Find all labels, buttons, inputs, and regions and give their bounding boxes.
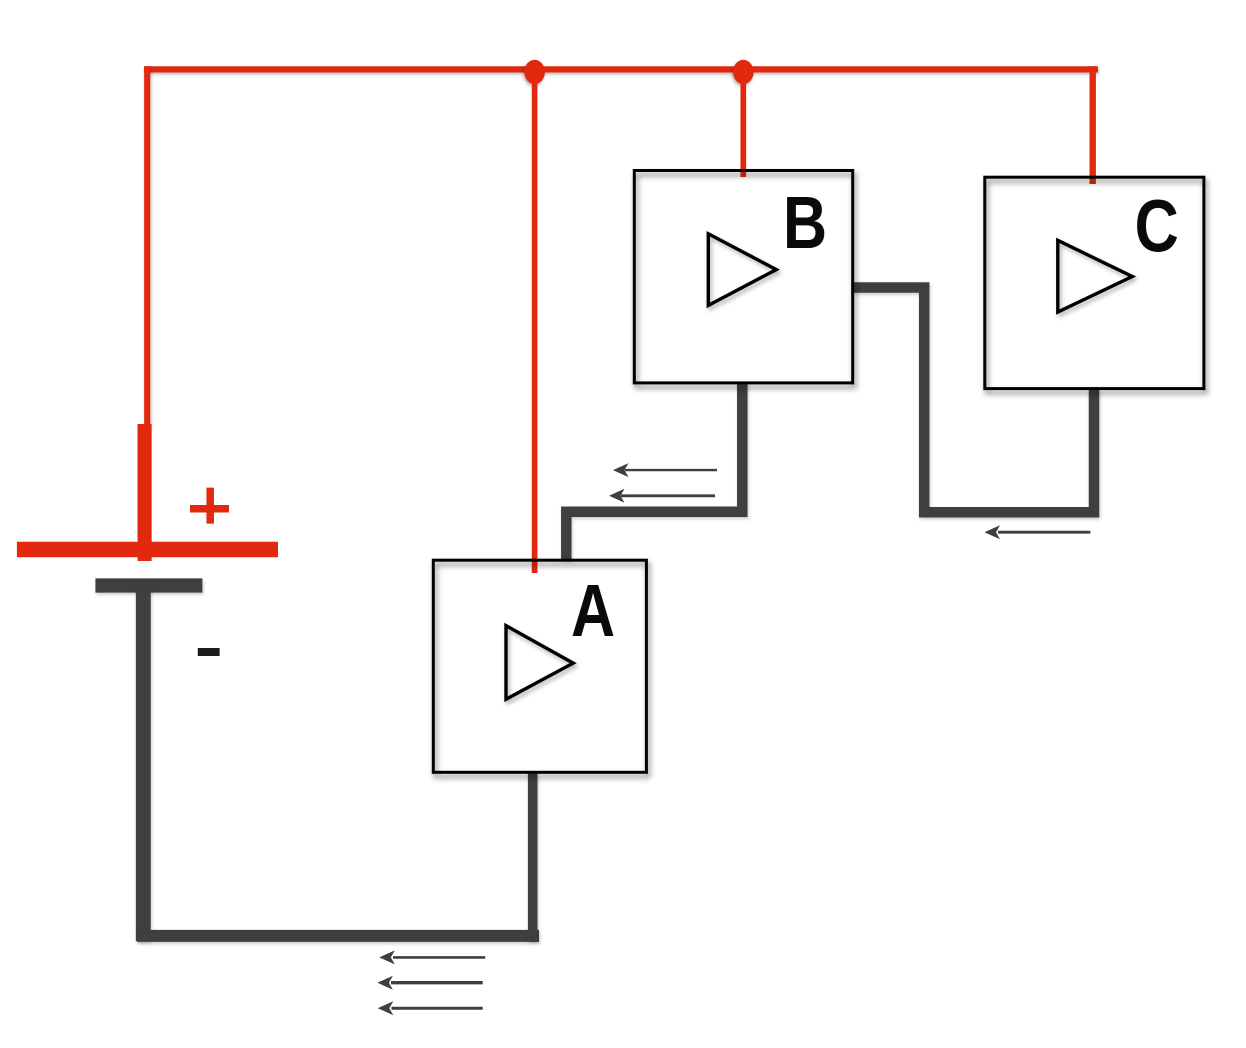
- label plus sign: [190, 488, 229, 524]
- box C: [985, 177, 1204, 388]
- battery positive plate: [17, 542, 278, 558]
- wire red thick battery positive lead: [138, 424, 152, 561]
- wire red drop to box A: [532, 72, 538, 573]
- current arrow 2 near box A: [609, 489, 715, 503]
- svg-text:B: B: [783, 181, 827, 264]
- current arrow near box C return: [985, 525, 1091, 539]
- wire battery negative lead down: [136, 588, 151, 941]
- op-amp triangle in box A: [506, 626, 573, 700]
- wire red drop to box B: [740, 72, 746, 177]
- label minus sign: [198, 648, 220, 656]
- current arrow 2 bottom return: [377, 976, 482, 990]
- wire box A bottom return vertical: [528, 773, 538, 941]
- op-amp triangle in box C: [1058, 240, 1133, 312]
- current arrow 1 near box A: [613, 463, 717, 477]
- wire box B right to box C bottom zigzag: [853, 288, 1094, 513]
- op-amp triangle in box B: [708, 234, 776, 306]
- wire bottom return horizontal: [137, 930, 539, 942]
- box B: [634, 171, 852, 383]
- svg-text:A: A: [571, 569, 615, 652]
- current arrow 3 bottom return: [378, 1001, 483, 1015]
- node junction dot A: [524, 60, 545, 84]
- wire red left vertical from battery: [144, 66, 150, 426]
- node junction dot B: [733, 60, 754, 84]
- current arrow 1 bottom return: [379, 950, 485, 964]
- battery negative plate: [95, 578, 202, 592]
- wire red drop to box C: [1089, 66, 1095, 184]
- box A: [433, 560, 646, 772]
- wire red positive rail top horizontal: [144, 66, 1098, 72]
- wire box A top to box B bottom zigzag: [566, 383, 742, 560]
- svg-text:C: C: [1135, 185, 1179, 268]
